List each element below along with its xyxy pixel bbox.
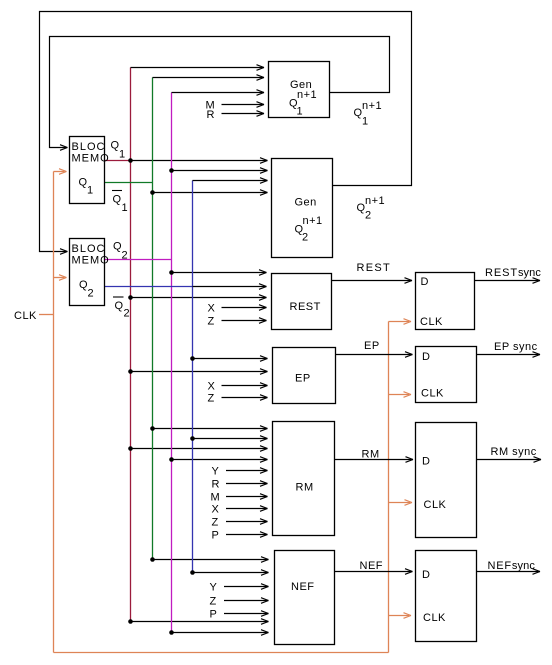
svg-text:NEF: NEF bbox=[291, 581, 315, 593]
svg-text:EP sync: EP sync bbox=[494, 341, 538, 353]
wire Y input line to NEF bbox=[224, 584, 269, 590]
flip-flop D NEF sync bbox=[416, 551, 477, 642]
svg-text:BLOC: BLOC bbox=[72, 141, 106, 153]
wire CLK branch to D flip-flop RM bbox=[389, 500, 413, 506]
wire Q1bar branch to Gen Q1 input bbox=[153, 75, 265, 81]
svg-text:1: 1 bbox=[122, 202, 129, 214]
label net EP bbox=[364, 340, 380, 352]
node Q1bar junction at RM branch bbox=[150, 426, 155, 431]
svg-text:Z: Z bbox=[208, 316, 215, 328]
label net NEF bbox=[360, 560, 384, 572]
wire M input line to RM bbox=[226, 494, 268, 500]
svg-text:Z: Z bbox=[212, 517, 219, 529]
node Q2 junction at RM branch bbox=[169, 457, 174, 462]
wire NEFsync output bbox=[477, 569, 541, 575]
svg-text:D: D bbox=[422, 351, 430, 363]
svg-text:X: X bbox=[208, 381, 216, 393]
wire X input line to REST bbox=[222, 305, 267, 311]
svg-text:2: 2 bbox=[365, 210, 372, 222]
label net Q1n+1 bbox=[354, 100, 383, 128]
wire Q1 branch to NEF input bbox=[131, 619, 269, 625]
wire Z input line to REST bbox=[222, 318, 267, 324]
node Q1 junction at NEF branch bbox=[128, 619, 133, 624]
wire Q2bar branch to NEF input bbox=[193, 570, 269, 576]
block EP bbox=[273, 348, 336, 404]
wire Q1 branch to EP input bbox=[131, 369, 268, 375]
svg-text:2: 2 bbox=[88, 288, 95, 300]
label Y input of RM bbox=[212, 466, 220, 478]
wire X input line to RM bbox=[226, 506, 268, 512]
svg-text:2: 2 bbox=[302, 232, 309, 244]
svg-text:1: 1 bbox=[297, 106, 304, 118]
block Gen Q2n+1 bbox=[272, 159, 333, 258]
label X input of EP bbox=[208, 381, 216, 393]
svg-text:RESTsync: RESTsync bbox=[485, 267, 541, 279]
wire Q1 output segment (red) from BLOC MEMO Q1 bbox=[105, 160, 131, 162]
svg-text:2: 2 bbox=[124, 308, 131, 320]
svg-text:EP: EP bbox=[295, 373, 311, 385]
node Q2 junction at NEF branch bbox=[169, 630, 174, 635]
label net RM bbox=[362, 449, 380, 461]
svg-text:n+1: n+1 bbox=[303, 215, 323, 227]
svg-text:NEFsync: NEFsync bbox=[488, 560, 536, 572]
svg-text:D: D bbox=[422, 569, 430, 581]
wire P input line to RM bbox=[226, 532, 268, 538]
wire Q2 branch to REST input bbox=[172, 270, 267, 276]
wire Q2bar output segment (blue) from BLOC MEMO Q2 bbox=[105, 286, 193, 288]
wire R input line bbox=[222, 111, 265, 117]
label net Q2n+1 bbox=[357, 195, 386, 222]
block NEF bbox=[275, 551, 335, 645]
wire Q2 branch to Gen Q1 input bbox=[172, 90, 265, 96]
wire REST to D flip-flop bbox=[332, 278, 413, 284]
wire RM to D flip-flop bbox=[335, 457, 414, 463]
wire Z input line to EP bbox=[222, 395, 268, 401]
svg-text:Y: Y bbox=[210, 582, 218, 594]
wire Q1bar branch to Gen Q2 input bbox=[153, 190, 268, 196]
wire Q2bar vertical rail (blue) bbox=[192, 181, 194, 573]
node Q1 junction at Gen Q2 branch bbox=[128, 158, 133, 163]
wire EP to D flip-flop bbox=[336, 352, 413, 358]
svg-text:RM sync: RM sync bbox=[491, 446, 537, 458]
svg-text:1: 1 bbox=[119, 149, 126, 161]
label Q1bar output bbox=[112, 191, 128, 215]
svg-text:CLK: CLK bbox=[420, 316, 443, 328]
label net EP sync bbox=[494, 341, 538, 353]
node Q1 junction at EP branch bbox=[128, 369, 133, 374]
svg-text:CLK: CLK bbox=[421, 388, 444, 400]
svg-text:Y: Y bbox=[212, 466, 220, 478]
block BLOC MEMO Q1 bbox=[70, 137, 110, 204]
wire CLK branch to D flip-flop NEF bbox=[389, 613, 412, 619]
label P input of NEF bbox=[210, 609, 218, 621]
block REST bbox=[272, 274, 332, 330]
wire EPsync output bbox=[477, 352, 541, 358]
svg-text:R: R bbox=[207, 109, 215, 121]
wire X input line to EP bbox=[222, 383, 268, 389]
wire Q2bar branch to REST input bbox=[193, 284, 267, 290]
label M input of Gen Q1 bbox=[206, 100, 216, 112]
node Q1bar junction at NEF branch bbox=[150, 557, 155, 562]
svg-text:n+1: n+1 bbox=[297, 89, 317, 101]
svg-text:2: 2 bbox=[122, 250, 129, 262]
node Q2 junction at Gen Q2 branch bbox=[169, 168, 174, 173]
svg-text:BLOC: BLOC bbox=[72, 243, 106, 255]
label net RM sync bbox=[491, 446, 537, 458]
wire CLK branch to D flip-flop REST bbox=[389, 319, 412, 325]
label X input of RM bbox=[212, 504, 220, 516]
svg-text:P: P bbox=[212, 530, 220, 542]
svg-text:EP: EP bbox=[364, 340, 380, 352]
svg-text:Q: Q bbox=[113, 194, 122, 206]
label Q1 output bbox=[111, 140, 126, 161]
flip-flop D REST sync bbox=[416, 273, 475, 330]
label net RESTsync bbox=[485, 267, 541, 279]
label net NEF sync bbox=[488, 560, 536, 572]
svg-text:MEMO: MEMO bbox=[72, 255, 110, 267]
wire Q2bar branch to Gen Q2 input bbox=[193, 178, 268, 184]
svg-text:1: 1 bbox=[87, 185, 94, 197]
label R input of Gen Q1 bbox=[207, 109, 215, 121]
wire Z input line to NEF bbox=[224, 598, 269, 604]
flip-flop D RM sync bbox=[416, 423, 477, 538]
wire Q1 branch to RM input bbox=[131, 446, 268, 452]
wire Q1 vertical rail (red) bbox=[130, 68, 132, 622]
svg-text:P: P bbox=[210, 609, 218, 621]
label CLK bbox=[14, 310, 37, 322]
label M input of RM bbox=[211, 492, 221, 504]
wire Q2 branch to NEF input bbox=[172, 630, 269, 636]
svg-text:1: 1 bbox=[362, 116, 369, 128]
svg-text:R: R bbox=[212, 479, 220, 491]
wire Q1 branch to Gen Q2 input bbox=[131, 158, 268, 164]
label Q2bar output bbox=[113, 297, 130, 320]
wire CLK branch to D flip-flop EP bbox=[389, 392, 412, 398]
node Q2 junction at REST branch bbox=[169, 270, 174, 275]
svg-text:D: D bbox=[421, 276, 429, 288]
wire Z input line to RM bbox=[226, 519, 268, 525]
label Q2 output bbox=[113, 241, 128, 262]
wire CLK bottom horizontal (orange) bbox=[54, 652, 389, 654]
svg-text:X: X bbox=[212, 504, 220, 516]
wire CLK branch to BLOC MEMO Q1 bbox=[54, 169, 67, 175]
svg-text:REST: REST bbox=[357, 262, 392, 274]
node Q1bar junction at Gen Q2 branch bbox=[150, 190, 155, 195]
svg-text:NEF: NEF bbox=[360, 560, 384, 572]
wire Q1bar vertical rail (green) bbox=[152, 78, 154, 560]
node Q1 junction at REST branch bbox=[128, 295, 133, 300]
label X input of REST bbox=[208, 303, 216, 315]
svg-text:Q: Q bbox=[115, 300, 124, 312]
wire net Q1n+1 feedback loop (Gen Q1 output to BLOC MEMO Q1 input) bbox=[50, 37, 390, 151]
wire Q2 vertical rail (magenta) bbox=[171, 93, 173, 633]
wire R input line to RM bbox=[226, 481, 268, 487]
svg-text:n+1: n+1 bbox=[365, 195, 385, 207]
wire CLK right vertical rail (orange) bbox=[388, 322, 390, 653]
wire CLK left vertical rail (orange) bbox=[53, 172, 55, 653]
svg-text:CLK: CLK bbox=[424, 499, 447, 511]
node Q2bar junction at NEF branch bbox=[190, 570, 195, 575]
wire Q1bar branch to NEF input bbox=[153, 557, 269, 563]
block RM bbox=[273, 422, 335, 536]
svg-text:n+1: n+1 bbox=[362, 100, 382, 112]
label Z input of REST bbox=[208, 316, 215, 328]
node Q1 junction at RM branch bbox=[128, 446, 133, 451]
wire Q2bar branch to RM input bbox=[193, 436, 268, 442]
node Q2bar junction at RM branch bbox=[190, 436, 195, 441]
label net REST bbox=[357, 262, 392, 274]
label R input of RM bbox=[212, 479, 220, 491]
svg-text:CLK: CLK bbox=[14, 310, 37, 322]
wire Y input line to RM bbox=[226, 468, 268, 474]
svg-text:REST: REST bbox=[290, 301, 321, 313]
wire Q2 branch to Gen Q2 input bbox=[172, 168, 268, 174]
svg-text:X: X bbox=[208, 303, 216, 315]
svg-text:Z: Z bbox=[210, 596, 217, 608]
svg-text:D: D bbox=[422, 456, 430, 468]
wire P input line to NEF bbox=[224, 611, 269, 617]
label Y input of NEF bbox=[210, 582, 218, 594]
label Z input of EP bbox=[208, 393, 215, 405]
wire RESTsync output bbox=[475, 278, 541, 284]
wire Q1bar output segment (green) from BLOC MEMO Q1 bbox=[105, 182, 153, 184]
svg-text:Gen: Gen bbox=[295, 197, 317, 209]
node Q2bar junction at EP branch bbox=[190, 356, 195, 361]
svg-text:CLK: CLK bbox=[423, 612, 446, 624]
block Gen Q1n+1 bbox=[269, 62, 330, 118]
wire Q2 branch to RM input bbox=[172, 457, 268, 463]
svg-text:RM: RM bbox=[362, 449, 380, 461]
wire Q1 branch to Gen Q1 input bbox=[131, 65, 265, 71]
svg-text:Z: Z bbox=[208, 393, 215, 405]
wire RMsync output bbox=[477, 457, 542, 463]
label P input of RM bbox=[212, 530, 220, 542]
wire M input line bbox=[222, 102, 265, 108]
wire Q2bar branch to EP input bbox=[193, 356, 268, 362]
wire CLK branch to BLOC MEMO Q2 bbox=[54, 275, 67, 281]
wire Q1 branch to REST input bbox=[131, 295, 267, 301]
wire Q2 output segment (magenta) from BLOC MEMO Q2 bbox=[105, 259, 172, 261]
svg-text:M: M bbox=[211, 492, 221, 504]
flip-flop D EP sync bbox=[416, 347, 477, 403]
label Z input of NEF bbox=[210, 596, 217, 608]
wire NEF to D flip-flop bbox=[335, 569, 413, 575]
block BLOC MEMO Q2 bbox=[70, 239, 110, 306]
svg-text:MEMO: MEMO bbox=[72, 153, 110, 165]
wire Q1bar branch to RM input bbox=[153, 426, 268, 432]
label Z input of RM bbox=[212, 517, 219, 529]
svg-text:RM: RM bbox=[296, 482, 314, 494]
wire net Q2n+1 feedback loop (Gen Q2 output to BLOC MEMO Q2 input) bbox=[40, 12, 412, 255]
wire CLK stub from label bbox=[39, 314, 54, 316]
